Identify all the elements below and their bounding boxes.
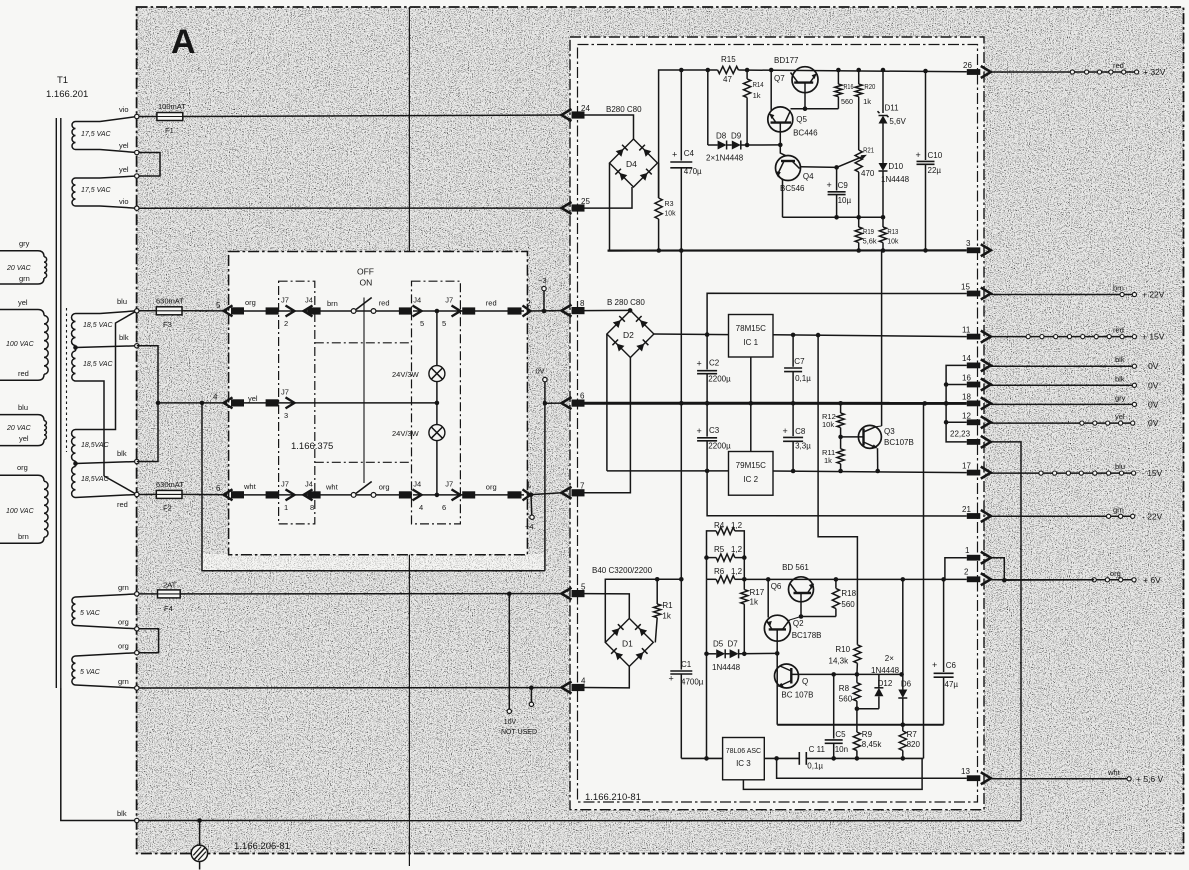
wire Q4 base from D8 row (780, 145, 786, 156)
terminal red (135, 492, 139, 496)
svg-text:+ 32V: + 32V (1143, 67, 1166, 77)
svg-text:24V/3W: 24V/3W (392, 370, 420, 379)
-22V feed wire (707, 471, 967, 516)
svg-text:brn: brn (1113, 284, 1124, 293)
output +32V red (991, 71, 1137, 73)
board pin 21 (967, 513, 981, 519)
svg-text:1N4448: 1N4448 (871, 666, 900, 675)
svg-text:R13: R13 (887, 227, 898, 236)
0V rail thick (585, 402, 967, 405)
svg-text:blk: blk (117, 449, 127, 458)
svg-text:C4: C4 (684, 149, 695, 158)
yel-yel link loop (137, 153, 160, 177)
pin13 wire +5.6V (777, 758, 967, 778)
svg-text:18,5 VAC: 18,5 VAC (83, 322, 114, 329)
row1 red to pin8 wire (527, 310, 561, 312)
svg-text:D5: D5 (713, 640, 724, 649)
output +5.6V wht (991, 778, 1129, 780)
svg-text:BC178B: BC178B (792, 631, 822, 640)
svg-text:Q: Q (802, 677, 808, 686)
svg-text:R16: R16 (844, 82, 854, 91)
svg-text:5 VAC: 5 VAC (80, 610, 101, 617)
resistor R11 1k (840, 437, 842, 449)
Q3 collector riser to R13 (881, 251, 883, 427)
Q3 emitter to -15V row (877, 448, 879, 471)
svg-text:C10: C10 (928, 151, 943, 160)
switch contact row1 (351, 309, 356, 314)
svg-text:5: 5 (216, 301, 221, 310)
svg-text:17,5 VAC: 17,5 VAC (81, 131, 112, 138)
svg-text:J4: J4 (413, 480, 421, 489)
junction R3 bottom rail (657, 248, 662, 253)
board pin 3 (967, 247, 981, 253)
svg-text:47: 47 (723, 75, 732, 84)
svg-text:C5: C5 (835, 730, 846, 739)
svg-text:1.166.210-81: 1.166.210-81 (585, 792, 641, 803)
+6V output row (744, 578, 967, 580)
thick row Q2 collector (777, 724, 943, 726)
svg-text:0,1µ: 0,1µ (807, 762, 823, 771)
wire vio2 to pin25 (139, 207, 562, 209)
svg-text:F3: F3 (163, 320, 172, 329)
svg-text:C8: C8 (795, 427, 806, 436)
diodes D5 D7 1N4448 (707, 653, 717, 655)
resistor R8 560 (856, 674, 858, 682)
svg-text:T1: T1 (57, 75, 68, 86)
board pin 8 (562, 305, 572, 317)
svg-text:BC546: BC546 (780, 184, 805, 193)
svg-text:R7: R7 (907, 730, 918, 739)
svg-text:560: 560 (839, 695, 853, 704)
svg-text:2×: 2× (885, 654, 894, 663)
terminal yel upper (135, 150, 139, 154)
capacitor C8 3.3u (791, 469, 796, 474)
svg-text:+ 15V: + 15V (1142, 332, 1165, 342)
junction 10V tap 2 (529, 685, 534, 690)
svg-text:vio: vio (119, 197, 129, 206)
terminal tilde4 (530, 495, 533, 515)
svg-text:3: 3 (284, 411, 288, 420)
svg-text:18,5VAC: 18,5VAC (81, 442, 110, 449)
svg-text:IC 3: IC 3 (736, 759, 751, 768)
terminal blu (135, 309, 139, 313)
svg-text:~3: ~3 (538, 276, 547, 285)
svg-text:C2: C2 (709, 359, 720, 368)
capacitor C3 2200u (706, 403, 708, 436)
svg-text:+: + (916, 150, 921, 160)
svg-text:1: 1 (965, 546, 970, 555)
connector block J4 right frame (412, 281, 461, 524)
svg-text:17,5 VAC: 17,5 VAC (81, 187, 112, 194)
svg-text:1,2: 1,2 (731, 545, 743, 554)
wire A-B junction to blk terminal (76, 346, 137, 348)
switch box frame 1.166.375 (229, 252, 528, 555)
svg-text:+: + (697, 359, 702, 369)
junction Q7 emitter rail (769, 68, 774, 73)
resistor R13 10k (882, 217, 884, 227)
transistor Q6 BD561 (789, 577, 814, 602)
svg-text:blu: blu (1115, 462, 1125, 471)
svg-text:blu: blu (18, 403, 28, 412)
svg-text:grn: grn (118, 583, 129, 592)
svg-text:2AT: 2AT (163, 581, 177, 590)
svg-text:8: 8 (580, 299, 585, 308)
T1 core (55, 118, 57, 688)
IC1 ground lead (750, 357, 752, 403)
svg-text:gry: gry (19, 239, 30, 248)
output 0V blk 2 (991, 384, 1135, 386)
connector J4 arrow row1 (304, 306, 313, 317)
diode D6 (901, 577, 906, 582)
junction Q2 collector / D5 row (775, 651, 780, 656)
svg-text:brn: brn (327, 299, 338, 308)
svg-text:J4: J4 (305, 480, 313, 489)
junction C3 bottom (705, 469, 710, 474)
svg-text:0V: 0V (1148, 380, 1159, 390)
switch linkage (363, 298, 365, 484)
board pin 18 (967, 401, 981, 407)
junction D6 R7 and thick row (901, 722, 906, 727)
svg-text:org: org (486, 483, 497, 492)
svg-text:47µ: 47µ (945, 680, 959, 689)
resistor R9 8.45k (856, 709, 858, 732)
transistor Q3 BC107B (858, 425, 881, 448)
T1 shield to chassis wire (61, 688, 135, 821)
svg-text:0V: 0V (1148, 399, 1159, 409)
svg-text:org: org (118, 642, 129, 651)
svg-text:+ 22V: + 22V (1142, 290, 1165, 300)
resistor block R4 1.2 (707, 531, 717, 558)
junction R1 top (655, 577, 660, 582)
svg-text:D10: D10 (888, 162, 903, 171)
svg-text:7: 7 (580, 482, 585, 491)
svg-text:24V/3W: 24V/3W (392, 429, 420, 438)
svg-text:630mAT: 630mAT (156, 297, 184, 306)
svg-text:4: 4 (419, 503, 423, 512)
svg-text:F4: F4 (164, 604, 173, 613)
resistor R15 47 (718, 66, 739, 73)
junction blk riser / yel row (156, 401, 161, 406)
svg-text:78L06 ASC: 78L06 ASC (726, 748, 761, 755)
junction A-B (73, 345, 78, 350)
svg-text:11: 11 (962, 326, 971, 335)
svg-text:5: 5 (420, 319, 424, 328)
capacitor C1 4700u (680, 579, 682, 669)
svg-text:org: org (17, 463, 28, 472)
svg-text:D12: D12 (878, 679, 893, 688)
wire vio to pin24 (139, 116, 157, 118)
junction +15V feed down (816, 333, 821, 338)
diode D12 (878, 674, 880, 687)
svg-text:gry: gry (1115, 393, 1126, 402)
svg-text:IC 2: IC 2 (743, 475, 758, 484)
svg-text:24: 24 (581, 104, 590, 113)
svg-text:R21: R21 (863, 146, 874, 155)
terminal grn lower (135, 686, 139, 690)
diode D10 1N4448 (879, 163, 888, 171)
junction R12 R11 base (838, 435, 843, 440)
ground chassis symbol (199, 821, 201, 846)
wire pin8 to bridge D2 (585, 309, 631, 311)
svg-text:1k: 1k (750, 598, 759, 607)
svg-text:grn: grn (1113, 505, 1124, 514)
svg-text:+: + (697, 426, 702, 436)
resistor R10 14.3k (854, 645, 861, 663)
fuse F2 630mAT (156, 490, 182, 498)
output 0V yel (991, 422, 1133, 424)
Q2 emitter riser (766, 577, 771, 582)
slant from B-route to red terminal (104, 476, 137, 495)
transistor Q BC107B (775, 664, 799, 688)
wire pin4 to bridge D1 (585, 666, 630, 688)
svg-text:+: + (827, 180, 832, 190)
connector J7-2 arrow (266, 307, 279, 314)
svg-text:D7: D7 (728, 640, 739, 649)
svg-text:5,6V: 5,6V (889, 117, 906, 126)
junction lamp mid (435, 401, 440, 406)
svg-text:+: + (783, 426, 788, 436)
svg-text:R1: R1 (662, 601, 673, 610)
T1 winding 17.5VAC upper (72, 122, 75, 150)
svg-text:F1: F1 (165, 126, 174, 135)
connector J4-8 arrow row3 (304, 489, 313, 500)
diodes D8 D9 2x1N4448 row (708, 144, 718, 146)
IC1 output wire +15V (773, 335, 967, 337)
junction tilde4 (529, 492, 534, 497)
svg-text:1: 1 (526, 481, 531, 490)
svg-text:B280 C80: B280 C80 (606, 105, 642, 114)
T1 winding 17.5VAC lower (72, 178, 75, 206)
svg-text:5: 5 (581, 583, 586, 592)
wire D2 left corner to IC2 row (606, 334, 608, 471)
svg-text:BD177: BD177 (774, 56, 799, 65)
resistor R12 10k (840, 403, 842, 413)
svg-text:8,45k: 8,45k (862, 740, 883, 749)
svg-text:R9: R9 (862, 730, 873, 739)
svg-text:26: 26 (963, 61, 972, 70)
svg-text:C 11: C 11 (809, 745, 826, 754)
svg-text:grn: grn (19, 274, 30, 283)
svg-text:20 VAC: 20 VAC (6, 425, 32, 432)
capacitor C5 10n (833, 674, 835, 738)
svg-text:2: 2 (284, 319, 288, 328)
svg-text:- 15V: - 15V (1142, 468, 1163, 478)
svg-text:3: 3 (966, 239, 971, 248)
svg-text:J7: J7 (281, 388, 289, 397)
wire grn2 to board pin4 (139, 687, 562, 689)
connector bridge dash-dot bottom (315, 461, 412, 463)
svg-text:blk: blk (1115, 355, 1125, 364)
svg-text:Q7: Q7 (774, 74, 785, 83)
board pin 1 (967, 555, 981, 561)
junction Q5 base (778, 143, 783, 148)
resistor R16 560 (836, 68, 841, 73)
svg-text:21: 21 (962, 505, 971, 514)
svg-text:wht: wht (1107, 768, 1121, 777)
pin1 link (944, 558, 967, 580)
T1 winding 18.5VAC B (72, 351, 76, 381)
svg-text:R6: R6 (714, 567, 725, 576)
svg-text:C9: C9 (838, 181, 849, 190)
svg-text:D1: D1 (622, 639, 633, 649)
output -15V blu (991, 472, 1134, 474)
svg-text:22,23: 22,23 (950, 430, 971, 439)
fuse F1 100mAT (157, 113, 183, 121)
output 0V gry (991, 403, 1135, 405)
svg-text:J4: J4 (305, 296, 313, 305)
0V loop to transformer centre tap (202, 403, 545, 571)
svg-text:wht: wht (243, 482, 257, 491)
svg-text:17: 17 (962, 462, 971, 471)
svg-text:OFF: OFF (357, 267, 374, 277)
svg-text:R4: R4 (714, 521, 725, 530)
T1 shield dashed line (66, 308, 68, 452)
terminal grn upper (135, 592, 139, 596)
output +15V red (991, 336, 1135, 338)
svg-text:Q4: Q4 (803, 172, 814, 181)
svg-text:~4: ~4 (525, 522, 534, 531)
svg-text:D2: D2 (623, 330, 634, 340)
wire C-D junction to blk terminal 2 (76, 462, 137, 464)
wire D4 right corner to R3 (658, 163, 660, 198)
board pin 6 (562, 397, 572, 409)
svg-text:25: 25 (581, 197, 590, 206)
svg-text:blk: blk (119, 333, 129, 342)
svg-text:2: 2 (526, 299, 531, 308)
junction C2 top (705, 332, 710, 337)
left block riser (706, 579, 708, 654)
board pin 14 (967, 363, 981, 369)
bridge rectifier D2 (628, 308, 633, 313)
wire 0V to pin6 (545, 402, 562, 404)
org-org link loop (137, 629, 159, 653)
svg-text:0,1µ: 0,1µ (795, 374, 811, 383)
IC2 row wire (607, 470, 729, 472)
board pin 13 (967, 775, 981, 781)
regulator IC2 79M15C (729, 452, 774, 496)
svg-text:red: red (379, 299, 390, 308)
svg-text:12: 12 (962, 412, 971, 421)
svg-text:10µ: 10µ (838, 196, 852, 205)
svg-text:79M15C: 79M15C (736, 461, 766, 470)
svg-text:R18: R18 (841, 589, 856, 598)
svg-text:+ 6V: + 6V (1143, 575, 1161, 585)
Q4 emitter row (782, 181, 784, 218)
row3 org to pin7 wire (527, 493, 561, 495)
junction C4 bottom rail (679, 248, 684, 253)
10V not used stub 1 (508, 594, 510, 709)
capacitor C4 470u (679, 68, 684, 73)
resistor R19 5.6k (858, 217, 860, 227)
board outer dash-dot frame 1.166.210-81 (570, 37, 984, 810)
0V drop wire (544, 382, 546, 571)
svg-text:J7: J7 (445, 296, 453, 305)
svg-text:470: 470 (861, 169, 875, 178)
resistor R1 1k (656, 579, 658, 604)
capacitor C7 0.1u (791, 333, 796, 338)
terminal blk lower (135, 459, 139, 463)
svg-text:R8: R8 (839, 684, 850, 693)
svg-text:R17: R17 (750, 588, 765, 597)
svg-text:+ 5,6 V: + 5,6 V (1136, 774, 1164, 784)
wire red to switch pin6 (139, 493, 156, 495)
svg-text:R19: R19 (863, 227, 874, 236)
svg-text:+: + (932, 660, 937, 670)
svg-text:red: red (117, 500, 128, 509)
svg-text:+: + (672, 150, 677, 160)
svg-text:ON: ON (360, 278, 373, 288)
board pin 26 (967, 69, 981, 75)
wire D4 left corner down (608, 163, 610, 251)
sheet divider line lower (408, 555, 410, 866)
transistor Q5 BC446 (768, 107, 793, 132)
svg-text:20 VAC: 20 VAC (6, 265, 32, 272)
lamp 24V/3W lower (436, 403, 438, 425)
board pin 25 (562, 202, 572, 214)
primary winding gry 20VAC grn (0, 251, 44, 257)
svg-text:18: 18 (962, 393, 971, 402)
board pin 7 (562, 487, 572, 499)
svg-text:10k: 10k (887, 237, 898, 246)
output 0V blk 1 (991, 365, 1135, 367)
0V riser right (923, 403, 925, 758)
output -22V grn (991, 515, 1133, 517)
svg-text:10k: 10k (822, 420, 834, 429)
svg-text:5: 5 (442, 319, 446, 328)
connector bridge dash-dot top (315, 342, 412, 344)
IC3 ground loop (743, 758, 922, 789)
svg-text:820: 820 (907, 740, 921, 749)
board pin 11 (967, 334, 981, 340)
board pin 12 (967, 419, 981, 425)
right 0V pin block interconnect (946, 365, 967, 442)
svg-text:yel: yel (18, 298, 28, 307)
svg-text:D6: D6 (901, 680, 912, 689)
svg-text:10V: 10V (504, 719, 517, 726)
resistor R18 560 (834, 577, 839, 582)
svg-text:D11: D11 (885, 104, 900, 113)
svg-text:- 22V: - 22V (1142, 511, 1163, 521)
T1 winding 18.5VAC C (72, 430, 76, 462)
svg-text:1k: 1k (824, 456, 832, 465)
svg-text:2×1N4448: 2×1N4448 (706, 154, 744, 163)
junction Q6 base node (799, 614, 804, 619)
svg-text:vio: vio (119, 105, 129, 114)
row3 exit bar (508, 491, 522, 498)
junction R14 on rail (745, 68, 750, 73)
svg-text:B40 C3200/2200: B40 C3200/2200 (592, 566, 653, 575)
junction tilde3 (542, 309, 547, 314)
svg-text:1N4448: 1N4448 (712, 663, 741, 672)
svg-text:Q2: Q2 (793, 619, 804, 628)
svg-text:16: 16 (962, 374, 971, 383)
svg-text:18,5 VAC: 18,5 VAC (83, 361, 114, 368)
board pin 2 (967, 576, 981, 582)
svg-text:1,2: 1,2 (731, 521, 743, 530)
svg-text:R15: R15 (721, 55, 736, 64)
IC2 ground lead (750, 403, 752, 451)
svg-text:red: red (18, 369, 29, 378)
bottom rail of +32V section to pin3 (608, 249, 967, 251)
junction 10V tap 1 (507, 592, 512, 597)
capacitor C11 0.1u series (798, 752, 800, 765)
winding D bottom wire to red terminal (76, 495, 137, 498)
svg-text:22µ: 22µ (928, 166, 942, 175)
terminal blk upper (135, 344, 139, 348)
svg-text:org: org (118, 618, 129, 627)
svg-text:B 280 C80: B 280 C80 (607, 298, 645, 307)
wire Q6 base to R18 (801, 616, 836, 618)
